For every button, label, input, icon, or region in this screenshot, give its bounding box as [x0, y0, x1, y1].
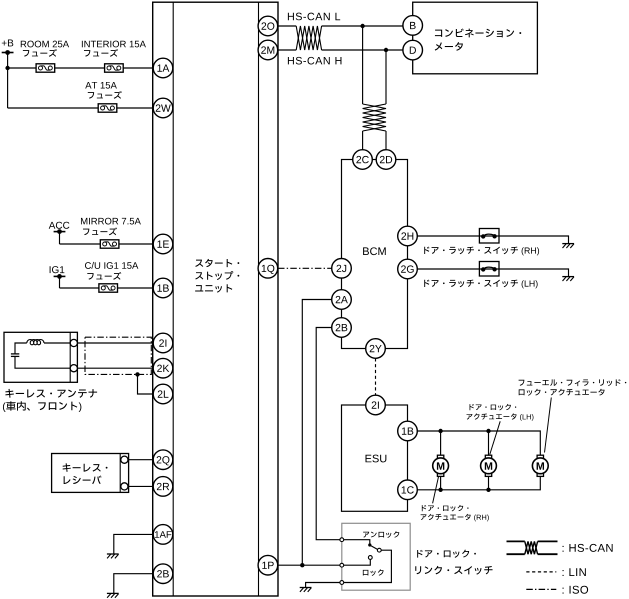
motor door-lock actuator (LH): [485, 455, 491, 458]
pin 2C (BCM): [353, 150, 373, 170]
pointer fuel filler actuator label: [545, 398, 552, 453]
keyless receiver connector strip: [119, 454, 121, 493]
pin 2A (BCM): [332, 290, 352, 310]
inductor antenna coil: [27, 340, 44, 345]
pin 2M (start-stop unit): [258, 40, 278, 60]
door latch switch (RH): [479, 229, 499, 244]
junction 1B bus motor2: [486, 429, 490, 433]
label door lock actuator LH line1: [470, 404, 517, 410]
junction HS-CAN L: [360, 24, 364, 28]
junction HS-CAN H: [384, 48, 388, 52]
pin 2B (start-stop unit): [153, 564, 173, 584]
pin 2O (start-stop unit): [258, 16, 278, 36]
motor fuel-filler-lid lock actuator: [537, 455, 543, 458]
wire 1B bus: [417, 431, 540, 455]
twisted pair HS-CAN (horizontal): [296, 26, 321, 50]
link switch contact lock: [340, 563, 344, 567]
label door lock actuator RH line2: [421, 514, 489, 522]
pin antenna 2: [70, 365, 77, 372]
link switch unlock wire: [344, 540, 370, 544]
wire motor1 return: [440, 477, 442, 490]
legend HS-CAN symbol: [507, 540, 525, 542]
fuse INTERIOR 15A: [105, 64, 124, 72]
label keyless receiver line1: [63, 463, 108, 472]
label INTERIOR 15A: [82, 41, 146, 48]
link switch contact common: [340, 581, 344, 585]
label C/U IG1 15A: [85, 262, 138, 269]
label combination meter line2: [435, 42, 463, 51]
label fuse 4: [83, 227, 117, 235]
ground G5 (link switch): [300, 587, 312, 589]
junction shield drain: [135, 372, 139, 376]
label door lock actuator RH line1: [422, 505, 469, 511]
fuse C/U IG1 15A: [99, 284, 118, 292]
label MIRROR 7.5A: [81, 218, 141, 225]
pin D (meter): [403, 40, 423, 60]
+B supply terminal: [2, 52, 14, 54]
start-stop unit inner line right: [258, 2, 260, 596]
combination meter box: [413, 2, 538, 74]
junction +B row1: [5, 66, 9, 70]
link switch pole circle: [377, 548, 381, 552]
pin antenna 1: [70, 339, 77, 346]
capacitor antenna: [11, 353, 19, 355]
label fuel filler lid line1: [519, 379, 627, 386]
legend ISO dash-dot sample: [526, 588, 556, 590]
pin 2J (BCM): [332, 259, 352, 279]
label combination meter line1: [435, 29, 521, 38]
ground G3 (latch RH): [562, 243, 574, 245]
ground G1 (1AF): [107, 553, 119, 555]
pin 2I (ESU): [366, 395, 386, 415]
door-lock link switch box: [342, 523, 410, 590]
pin 2I (start-stop unit): [153, 333, 173, 353]
label start-stop unit line1: [195, 259, 239, 267]
junction 2A/1P: [300, 563, 304, 567]
BCM box: [342, 160, 408, 349]
label fuse 1: [23, 49, 57, 57]
keyless receiver box: [52, 454, 129, 493]
keyless antenna connector strip: [69, 332, 71, 382]
wire 1C bus: [417, 477, 540, 490]
wire antenna internal left: [15, 343, 27, 354]
link switch unlock fixed dot: [368, 543, 371, 546]
wire ACC drop: [59, 232, 61, 244]
door latch switch (LH): [479, 262, 499, 277]
label keyless receiver line2: [64, 476, 102, 485]
pin 2R (start-stop unit): [153, 477, 173, 497]
wire common contact to ground: [306, 583, 342, 588]
wire 1AF to ground: [114, 534, 154, 554]
pin 1E (start-stop unit): [153, 234, 173, 254]
wire motor1 feed: [440, 431, 442, 455]
junction 1C bus motor2: [486, 488, 490, 492]
pin 1C (ESU): [398, 480, 418, 500]
start-stop unit box: [153, 2, 278, 596]
wire LIN 2Y to 2I (dashed): [375, 358, 377, 395]
link switch lock throw circle: [368, 556, 372, 560]
label door latch switch LH: [424, 280, 537, 289]
junction 1B bus motor1: [438, 429, 442, 433]
pin 1B (start-stop unit): [153, 278, 173, 298]
link switch lock wire: [344, 559, 371, 565]
pin 2Q (start-stop unit): [153, 450, 173, 470]
wire to pin 2D: [385, 131, 387, 150]
wire IG1 to pin 1B: [60, 287, 154, 289]
wire 2G through latch switch LH to ground: [417, 269, 568, 276]
ESU box: [342, 405, 408, 511]
label door lock link switch line1: [417, 550, 476, 558]
wire HS-CAN H to pin D: [322, 49, 403, 51]
start-stop unit inner line left: [172, 2, 174, 596]
wire shield drain to 2L: [138, 374, 154, 394]
wire CAN H drop: [385, 50, 387, 104]
label keyless antenna line1: [5, 389, 97, 398]
pin 2K (start-stop unit): [153, 358, 173, 378]
legend LIN dashed sample: [526, 571, 556, 573]
label door lock link switch line2: [415, 566, 492, 575]
label HS-CAN H: [288, 57, 342, 65]
wire antenna pin to 2K: [77, 367, 153, 369]
label keyless antenna line2: [3, 401, 81, 412]
wire motor2 return: [488, 477, 490, 490]
keyless antenna box: [4, 332, 77, 382]
pin 1Q (start-stop unit): [258, 259, 278, 279]
label legend LIN: [563, 568, 586, 576]
label start-stop unit line2: [195, 271, 239, 280]
label legend ISO: [563, 586, 589, 594]
wire 2A to lock contact: [302, 300, 331, 566]
pointer door lock actuator RH label: [433, 476, 439, 504]
pin 2H (BCM): [398, 226, 418, 246]
label door latch switch RH: [424, 247, 539, 256]
twisted pair HS-CAN (vertical): [363, 104, 386, 131]
pin 2L (start-stop unit): [153, 384, 173, 404]
wire CAN L drop: [362, 26, 364, 104]
label unlock: [363, 531, 399, 538]
ACC supply terminal: [54, 231, 66, 233]
wire motor2 feed: [488, 431, 490, 455]
wire AT fuse row to pin 2W: [8, 107, 154, 109]
label HS-CAN L: [288, 13, 340, 21]
ground G4 (latch LH): [562, 276, 574, 278]
label fuse 2: [84, 49, 118, 57]
pin B (meter): [403, 16, 423, 36]
wire antenna internal top: [44, 342, 70, 344]
motor door-lock actuator (RH): [437, 455, 443, 458]
wire +B to fuses row to pin 1A: [8, 67, 154, 69]
pin 1B (ESU): [398, 421, 418, 441]
ground G2 (2B): [107, 592, 119, 594]
label ROOM 25A: [21, 41, 69, 48]
label BCM: [363, 247, 386, 255]
pin 2W (start-stop unit): [153, 98, 173, 118]
wire IG1 drop: [59, 276, 61, 288]
pin receiver 2: [121, 483, 128, 490]
label fuse 5: [87, 272, 121, 280]
junction 1C bus motor1: [438, 488, 442, 492]
wire 1P to lock contact: [278, 564, 340, 566]
pointer door lock actuator LH label: [490, 421, 500, 454]
link switch contact unlock: [340, 538, 344, 542]
IG1 supply terminal: [54, 275, 66, 277]
wire 2H through latch switch RH to ground: [417, 236, 568, 243]
fuse MIRROR 7.5A: [100, 240, 119, 248]
link switch lever: [370, 545, 378, 549]
wire antenna pin to 2I: [77, 342, 153, 344]
label fuse 3: [88, 91, 122, 99]
pin 1A (start-stop unit): [153, 58, 173, 78]
pin 2B (BCM): [332, 318, 352, 338]
pin 2Y (BCM): [366, 339, 386, 359]
pin receiver 1: [121, 456, 128, 463]
wire receiver to 2R: [129, 485, 154, 487]
wire ISO 1Q to 2J (dash-dot): [278, 267, 332, 269]
wire 2B(BCM) to unlock contact: [316, 328, 340, 540]
label door lock actuator LH line2: [467, 413, 534, 421]
label legend HS-CAN: [563, 544, 613, 552]
shield around antenna wires (dash-dot): [85, 337, 151, 374]
label start-stop unit line3: [195, 284, 232, 292]
link switch pole wire: [344, 550, 392, 582]
wire HS-CAN L to pin B: [322, 25, 403, 27]
label lock: [363, 569, 384, 576]
label ESU: [366, 455, 387, 463]
pin 1AF (start-stop unit): [153, 525, 173, 545]
fuse ROOM 25A: [36, 64, 55, 72]
wire to pin 2C: [362, 131, 364, 150]
wire receiver to 2Q: [129, 459, 154, 461]
pin 1P (start-stop unit): [258, 555, 278, 575]
pin 2G (BCM): [398, 259, 418, 279]
wire HS-CAN H from 2M: [278, 49, 296, 51]
pin 2D (BCM): [376, 150, 396, 170]
label fuel filler lid line2: [519, 389, 605, 396]
wire antenna internal bottom: [15, 356, 70, 368]
wire 2B to ground: [114, 574, 154, 594]
wire HS-CAN L from 2O: [278, 25, 296, 27]
fuse AT 15A: [98, 104, 117, 112]
label AT 15A: [85, 82, 117, 89]
wire +B feed vertical: [7, 53, 9, 109]
wire ACC to pin 1E: [60, 243, 154, 245]
